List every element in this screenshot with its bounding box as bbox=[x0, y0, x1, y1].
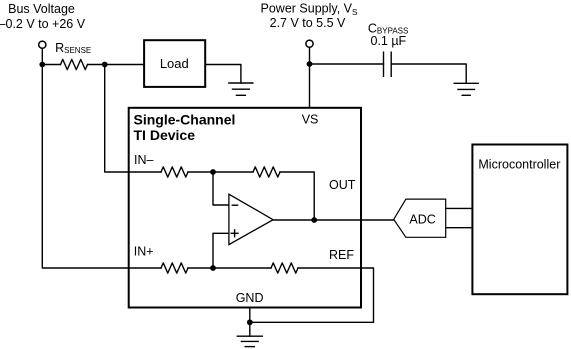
ground (load) bbox=[229, 83, 253, 95]
ground (bypass) bbox=[454, 83, 478, 95]
wire: IN+ junction up to op-amp non-inverting input bbox=[213, 233, 229, 268]
ground (main) bbox=[237, 336, 262, 346]
wire: VS node to CBYPASS bbox=[310, 63, 384, 65]
svg-text:VS: VS bbox=[302, 112, 319, 126]
resistor REF bbox=[271, 263, 298, 273]
junction: IN- node bbox=[210, 169, 216, 175]
svg-text:Microcontroller: Microcontroller bbox=[478, 157, 560, 171]
wire: RSENSE to Load bbox=[88, 64, 145, 66]
TI device box bbox=[129, 108, 361, 308]
node: power supply terminal bbox=[306, 40, 313, 47]
label: Power Supply, VS bbox=[261, 2, 358, 30]
load block bbox=[144, 40, 205, 87]
svg-text:IN–: IN– bbox=[134, 153, 154, 167]
junction: output node bbox=[311, 217, 317, 223]
svg-text:Bus Voltage: Bus Voltage bbox=[8, 2, 75, 16]
wire: feedback resistor down to output node bbox=[280, 172, 314, 220]
junction: VS node bbox=[307, 61, 313, 67]
label: Bus Voltage bbox=[0, 2, 86, 31]
resistor R IN+ input bbox=[161, 263, 188, 273]
capacitor CBYPASS bbox=[368, 21, 408, 76]
wire: GND pin to ground bbox=[249, 308, 251, 337]
node: bus voltage terminal bbox=[39, 41, 46, 48]
svg-text:GND: GND bbox=[236, 291, 264, 305]
wire: CBYPASS to ground bbox=[391, 64, 466, 83]
wire: junction to REF resistor bbox=[213, 267, 271, 269]
svg-text:Load: Load bbox=[160, 56, 189, 71]
svg-text:Power Supply, VS: Power Supply, VS bbox=[261, 2, 358, 18]
bus wires: ADC to microcontroller bbox=[446, 208, 473, 227]
wire: load node down to IN- line bbox=[105, 65, 161, 173]
wire: Load to ground bbox=[205, 65, 241, 84]
wire: IN- resistor to junction bbox=[188, 171, 213, 173]
wire: bus terminal down to IN+ run bbox=[42, 45, 161, 268]
junction: load/IN- node bbox=[102, 62, 108, 68]
wire: junction down to op-amp inverting input bbox=[213, 172, 229, 205]
wire: junction to feedback resistor bbox=[213, 171, 253, 173]
svg-text:0.1 µF: 0.1 µF bbox=[371, 34, 407, 48]
svg-text:ADC: ADC bbox=[409, 212, 435, 226]
svg-text:TI Device: TI Device bbox=[134, 127, 196, 143]
resistor RSENSE bbox=[55, 41, 91, 69]
wire: bus node to RSENSE bbox=[42, 64, 60, 66]
ADC block bbox=[394, 199, 446, 237]
svg-text:OUT: OUT bbox=[329, 178, 356, 192]
svg-text:Single-Channel: Single-Channel bbox=[134, 112, 236, 128]
wire: REF loop to ground node bbox=[250, 268, 374, 322]
op-amp U1 bbox=[229, 194, 273, 244]
resistor R IN- input bbox=[161, 167, 188, 177]
svg-text:IN+: IN+ bbox=[134, 245, 154, 259]
junction: bus node bbox=[39, 62, 45, 68]
junction: IN+ node bbox=[210, 265, 216, 271]
svg-text:REF: REF bbox=[329, 248, 354, 262]
wire: power supply terminal to VS pin bbox=[309, 45, 311, 108]
resistor feedback bbox=[253, 167, 280, 177]
svg-text:–0.2 V to +26 V: –0.2 V to +26 V bbox=[0, 17, 86, 31]
wire: op-amp output to ADC bbox=[273, 219, 394, 221]
microcontroller block bbox=[472, 145, 567, 295]
svg-text:2.7 V to 5.5 V: 2.7 V to 5.5 V bbox=[270, 16, 346, 30]
junction: GND/REF node bbox=[247, 319, 253, 325]
wire: IN+ resistor to junction bbox=[188, 267, 213, 269]
